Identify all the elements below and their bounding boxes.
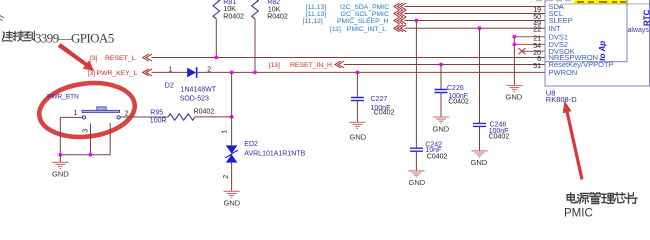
svg-text:[11,13]: [11,13] [306,11,326,18]
TVS diode ED2 [222,130,306,179]
node R81/RESET_L junction [214,56,218,60]
svg-text:PMIC: PMIC [564,208,593,220]
annotation text: 电源管理芯片 [567,193,637,204]
svg-text:AVRL101A1R1NTB: AVRL101A1R1NTB [244,150,305,157]
svg-text:PWRON: PWRON [549,68,578,77]
capacitor C242 [410,21,448,171]
svg-text:PMIC_INT_L: PMIC_INT_L [347,26,387,33]
svg-text:GND: GND [52,169,69,178]
svg-text:PWR_BTN: PWR_BTN [47,93,79,100]
off-page connector PWR_KEY_L [143,69,152,76]
node R95/ED2 junction [230,115,234,119]
off-page connector PMIC_INT_L [394,25,406,32]
wire R82 down to PWRON net [254,19,256,73]
wire DVS1/DVS2 to ground [513,37,515,86]
svg-text:GND: GND [506,93,523,102]
node SLEEP/C242 junction [415,19,419,23]
svg-text:1: 1 [169,67,173,74]
wire ED2 to ground [231,163,233,192]
wire PWRON net: D2 cathode to IC [197,71,545,73]
node DVS2 junction [513,43,517,47]
wire RESET_L to NRESPWRON [152,57,546,59]
wire I2C_SDA_PMIC [405,6,546,8]
svg-text:3399—GPIOA5: 3399—GPIOA5 [35,31,114,46]
wire PMIC_INT_L [405,27,546,29]
resistor R81 [213,0,244,21]
svg-text:R0402: R0402 [194,109,215,116]
wire button bottom [60,154,110,156]
svg-text:GND: GND [350,132,367,141]
capacitor C246 [473,28,509,151]
top text fragments [536,0,571,1]
svg-text:SOD-523: SOD-523 [180,96,209,103]
wire button pin2 to R95 [120,116,168,118]
push button PWR_BTN [47,93,129,133]
off-page connector I2C_SDA_PMIC [394,3,406,10]
svg-text:GND: GND [224,199,241,208]
pin stub DVSOK [521,50,545,52]
svg-text:R0402: R0402 [223,14,244,21]
off-page connector I2C_SCL_PMIC [394,10,406,17]
svg-text:PWR_KEY_L: PWR_KEY_L [97,70,138,77]
no-connect X on DVSOK [519,48,526,54]
wire I2C_SCL_PMIC [405,13,546,15]
wire button right vertical [109,123,111,155]
ground under DVS line [506,86,523,102]
svg-text:R81: R81 [223,0,236,6]
off-page connector RESET_L [143,54,152,61]
ground under C226 [433,117,450,134]
svg-text:[11,12]: [11,12] [303,18,323,25]
svg-text:[11,13]: [11,13] [306,4,326,11]
svg-text:RESET_L: RESET_L [105,55,135,62]
off-page connector PMIC_SLEEP_H [394,17,406,24]
capacitor C226 [435,65,469,117]
ground under C246 [471,151,488,167]
annotation arrow to RK808-D [563,101,584,180]
edge mark left [0,16,4,21]
svg-text:GND: GND [433,125,450,134]
svg-text:51: 51 [533,63,541,70]
node DVS1 junction [513,35,517,39]
node PWRON/C227 junction [356,71,360,75]
svg-text:GND: GND [409,178,426,187]
svg-text:C227: C227 [371,96,388,103]
svg-text:D2: D2 [165,82,174,89]
corner mark [558,6,562,8]
resistor R95 [150,109,215,125]
ground under C227 [349,122,366,141]
IC U8 inner box [545,0,627,62]
svg-text:1N4148WT: 1N4148WT [181,86,217,93]
svg-text:PMIC_SLEEP_H: PMIC_SLEEP_H [337,18,388,25]
svg-text:[13]: [13] [269,62,280,69]
wire PMIC_SLEEP_H [405,20,546,22]
net label I2C_SDA_PMIC [306,4,389,11]
wire R81 to RESET_L [215,19,217,58]
svg-text:6: 6 [537,56,541,63]
svg-text:21: 21 [533,35,541,42]
svg-text:10K: 10K [223,6,236,13]
svg-text:1: 1 [222,130,229,134]
svg-text:R82: R82 [267,0,280,6]
svg-text:ED2: ED2 [244,141,258,148]
svg-text:I2C_SCL_PMIC: I2C_SCL_PMIC [341,11,389,18]
node INT/C246 junction [478,26,482,30]
annotation arrow to PWR_KEY_L [58,43,94,71]
annotation ellipse around PWR_BTN [36,78,138,142]
ground under button [52,155,69,179]
pin stub DVS2 [514,43,545,45]
svg-text:3: 3 [83,129,90,133]
svg-text:[11]: [11] [330,26,341,33]
node RESET_IN_H/C226 junction [439,63,443,67]
pin stub DVS1 [514,36,545,38]
wire left vertical [59,117,61,154]
svg-text:2: 2 [125,111,129,118]
svg-text:22: 22 [533,27,541,34]
svg-text:RTC: RTC [643,9,650,26]
node PWRON/R82 junction [253,71,257,75]
svg-text:C0402: C0402 [489,133,510,140]
net label PMIC_INT_L [330,26,386,33]
net label RESET_L [90,55,135,62]
wire RESET_IN_H to ResetKey pin [344,64,545,66]
wire button pin1 to left [60,116,82,118]
annotation text: 连接到3399—GPIOA5 [2,31,34,41]
yellow highlight bar [574,0,628,4]
node PWRON/ED2 junction [230,71,234,75]
svg-text:1: 1 [74,110,78,117]
svg-text:100R: 100R [150,117,167,124]
svg-text:10K: 10K [268,6,281,13]
resistor R82 [252,0,288,21]
diode D2 [165,67,217,103]
node bottom-middle junction [89,153,93,157]
svg-text:GND: GND [471,158,488,167]
svg-text:C0402: C0402 [427,153,448,160]
net label PWR_KEY_L [88,70,138,77]
svg-text:R95: R95 [150,110,163,117]
wire button pin3 vertical [90,124,92,155]
svg-text:2: 2 [223,175,230,179]
node bottom-left junction [58,153,62,157]
svg-text:[3]: [3] [88,70,96,77]
IC U8 outer box [545,0,650,86]
wire ED2 vertical top [231,72,233,145]
svg-text:always: always [628,27,650,34]
off-page connector RESET_IN_H [335,61,344,68]
net label I2C_SCL_PMIC [306,11,389,18]
capacitor C227 [351,72,395,122]
svg-text:to Ap: to Ap [598,41,607,61]
top divider line [563,3,650,5]
svg-text:I2C_SDA_PMIC: I2C_SDA_PMIC [340,4,389,11]
svg-text:C226: C226 [447,85,464,92]
net label RESET_IN_H [269,62,333,69]
svg-text:RESET_IN_H: RESET_IN_H [290,62,332,69]
net label PMIC_SLEEP_H [303,18,389,25]
wire R95 to ED2 node [195,116,232,118]
ground under ED2 [224,191,241,207]
svg-text:C0402: C0402 [448,99,469,106]
ground under C242 [408,171,425,187]
svg-text:R0402: R0402 [267,14,288,21]
svg-text:C0402: C0402 [374,110,395,117]
wire PWR_KEY_L to D2 anode [152,71,188,73]
svg-text:RK808-D: RK808-D [546,95,577,104]
svg-text:[3]: [3] [90,55,98,62]
